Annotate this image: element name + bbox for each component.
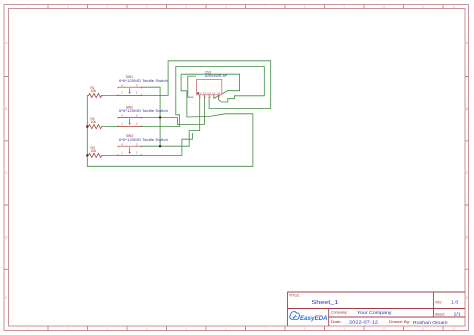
svg-text:1: 1 [121,122,123,126]
wire SW3 top to CN1 pin1 [142,99,200,147]
svg-text:1.0: 1.0 [451,300,459,305]
svg-text:4: 4 [121,142,123,146]
resistor R2 10k [87,117,102,129]
wire R1 to SW1 [102,95,119,97]
svg-text:10k: 10k [91,89,97,93]
svg-text:1: 1 [200,97,202,99]
wire SW1 bottom to CN1 pin3 (outer loop) [142,61,271,109]
wire switch-top chain SW1-SW2-SW3 [142,87,161,146]
svg-text:4: 4 [121,83,123,87]
svg-text:D: D [5,236,8,240]
svg-text:Roshan Oinam: Roshan Oinam [413,320,448,325]
svg-text:12: 12 [453,327,456,331]
svg-text:10k: 10k [91,149,97,153]
svg-text:1/1: 1/1 [454,312,462,317]
svg-text:1: 1 [121,150,123,154]
svg-text:11: 11 [422,5,425,9]
junction dot 3 [86,125,88,127]
svg-text:Sheet:: Sheet: [435,312,445,316]
EasyEDA logo [290,312,328,322]
svg-text:11: 11 [422,327,425,331]
svg-text:TITLE:: TITLE: [289,294,300,298]
wire SW3 bottom stub [142,133,193,155]
svg-text:2: 2 [205,97,207,99]
svg-text:E: E [5,296,7,300]
wire hook near CN1 label [188,76,196,97]
wire R3 to SW3 [102,154,119,156]
svg-text:B: B [466,107,468,111]
svg-text:10: 10 [382,327,385,331]
svg-text:2: 2 [136,122,138,126]
svg-text:10k: 10k [91,120,97,124]
svg-text:2: 2 [136,91,138,95]
svg-text:3: 3 [210,97,212,99]
svg-text:5: 5 [219,97,221,99]
junction dot 1 [159,116,161,118]
svg-text:2: 2 [136,150,138,154]
svg-text:Company:: Company: [331,311,348,315]
svg-text:3: 3 [136,142,138,146]
svg-text:6*6*120MD Tactile Switch: 6*6*120MD Tactile Switch [119,79,168,83]
svg-text:12: 12 [453,5,456,9]
svg-text:C: C [5,171,8,175]
title block [287,292,465,326]
connector CN1 A2004WR-5P [197,71,228,99]
wire supply rail / CN1 pin4 net [87,74,253,166]
wire SW2 top to CN1 pin2 [142,99,205,125]
svg-text:A: A [5,41,8,45]
svg-text:2022-07-12: 2022-07-12 [349,320,379,325]
svg-text:E: E [466,296,468,300]
resistor R3 10k [87,146,102,158]
svg-text:Sheet_1: Sheet_1 [311,300,338,306]
svg-text:Your Company: Your Company [357,310,392,315]
svg-text:REV:: REV: [436,300,443,304]
tactile switch SW3 [118,134,168,155]
svg-text:6*6*120MD Tactile Switch: 6*6*120MD Tactile Switch [119,138,168,142]
svg-text:Date:: Date: [331,320,342,324]
svg-text:1: 1 [121,91,123,95]
tactile switch SW2 [118,105,168,126]
svg-text:A2004WR-5P: A2004WR-5P [205,74,228,78]
tactile switch SW1 [118,75,168,95]
svg-text:3: 3 [136,114,138,118]
svg-text:10: 10 [382,5,385,9]
wire SW2 bottom to CN1 pin5 (loop) [142,67,265,127]
svg-text:EasyEDA: EasyEDA [300,315,328,322]
svg-text:Drawn By:: Drawn By: [389,320,411,324]
svg-text:B: B [5,107,7,111]
svg-text:6*6*120MD Tactile Switch: 6*6*120MD Tactile Switch [119,109,168,113]
junction dot 4 [86,154,88,156]
resistor R1 10k [87,86,102,98]
junction dot 2 [159,145,161,147]
svg-text:3: 3 [136,83,138,87]
svg-text:4: 4 [121,114,123,118]
wire R2 to SW2 [102,126,119,128]
